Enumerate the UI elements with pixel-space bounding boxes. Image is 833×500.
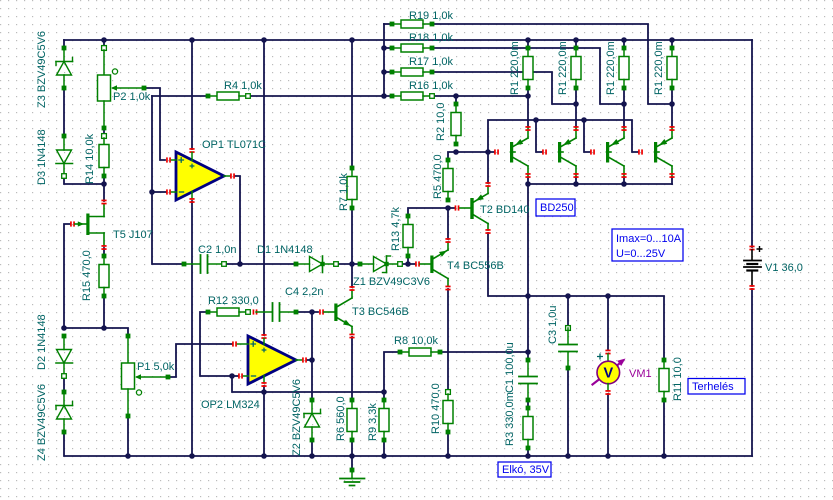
- wire Z1 to T4 base junction: [400, 263, 415, 265]
- resistor R7 1,0k: [350, 166, 355, 171]
- junction at 192,456: [189, 453, 195, 459]
- junction at 456,152: [453, 149, 459, 155]
- svg-text:R13 4,7k: R13 4,7k: [390, 206, 402, 251]
- battery V1 36,0: [749, 246, 754, 251]
- op-amp OP1 TL071C: [176, 152, 224, 200]
- junction at 584,120: [581, 117, 587, 123]
- junction at 384,96: [381, 93, 387, 99]
- transistor T3 BC546B: [319, 309, 324, 314]
- OP1 input - lead: [166, 189, 171, 194]
- wire T3 collector to row junction: [351, 264, 353, 287]
- svg-text:T4 BC556B: T4 BC556B: [447, 260, 504, 272]
- wire D1 right to junction and Z1: [336, 263, 360, 265]
- wire collector bus y=184: [528, 183, 672, 185]
- svg-text:P2 1,0k: P2 1,0k: [113, 91, 151, 103]
- junction at 672,40: [669, 37, 675, 43]
- junction at 128,456: [125, 453, 131, 459]
- junction at 264,392: [261, 389, 267, 395]
- wire R18 right y=48 to x=600: [432, 48, 624, 104]
- svg-text:V1 36,0: V1 36,0: [765, 262, 803, 274]
- wire R6 bottom to bus: [351, 440, 353, 456]
- power transistor Q2 BD250: [542, 149, 547, 154]
- wire R2 bottom junction to base bus y=152: [448, 152, 494, 160]
- OP1 V+ stub: [189, 148, 194, 153]
- svg-text:R19 1,0k: R19 1,0k: [409, 10, 454, 22]
- wire Q1..Q4 collector pins to bus: [527, 177, 529, 184]
- svg-text:R10 470,0: R10 470,0: [430, 383, 442, 434]
- svg-text:R8 10,0k: R8 10,0k: [394, 335, 439, 347]
- wire T2 emitter to base bus junction: [487, 152, 489, 183]
- wire OP1 output down to C2/D1 row: [235, 176, 240, 264]
- P1 wiper arm: [137, 376, 168, 378]
- wire OP1- junction to pin: [152, 191, 166, 193]
- wire R1#1 bottom to Q1 emitter: [527, 88, 529, 127]
- annotation box Terheles: [688, 379, 745, 395]
- wire C3 bottom to ground bus: [567, 368, 569, 456]
- wire P2 top stub: [103, 40, 105, 48]
- power transistor Q3 BD250: [590, 149, 595, 154]
- junction at 672,104: [669, 101, 675, 107]
- junction at 384,456: [381, 453, 387, 459]
- wire x=152 down to OP1- and C2: [152, 96, 184, 264]
- OP2 V- stub: [263, 376, 265, 384]
- junction at 352,456: [349, 453, 355, 459]
- resistor R1 220,0m #4: [670, 46, 675, 51]
- potentiometer P1 5,0k: [126, 334, 131, 339]
- OP2 input + lead: [232, 341, 237, 346]
- junction at 352,40: [349, 37, 355, 43]
- junction at 384,48: [381, 45, 387, 51]
- wire R4 net from x=152 corner: [152, 95, 208, 97]
- wire D3 bottom elbow to R14 junction: [64, 176, 104, 184]
- svg-text:R1 220,0m: R1 220,0m: [557, 41, 569, 95]
- wire P2 wiper to OP1+ vertical x=160: [144, 88, 165, 160]
- wire R3 bottom to bus: [527, 448, 529, 456]
- wire T4 emitter top from R5/T2 junction: [447, 208, 449, 239]
- wire VM1 top from bus y=296: [607, 296, 609, 350]
- wire R8 right to C1 junction: [440, 351, 528, 353]
- power transistor Q4 BD250: [638, 149, 643, 154]
- svg-text:Elkó, 35V: Elkó, 35V: [502, 464, 550, 476]
- OP2 V+ stub: [261, 334, 266, 339]
- svg-text:R9 3,3k: R9 3,3k: [367, 403, 379, 441]
- zener Z2 BZV49C5V6: [310, 398, 315, 403]
- junction at 568,296: [565, 293, 571, 299]
- wire OP1 V- down to bottom bus: [191, 201, 193, 456]
- wire R7 bottom to C2/D1 row junction: [351, 208, 353, 264]
- wire VM1 bottom to ground bus: [607, 394, 609, 456]
- svg-text:Terhelés: Terhelés: [692, 381, 734, 393]
- wire OP2 V+ rail x=264 from top bus: [263, 40, 265, 335]
- transistor T4 BC556B: [415, 261, 420, 266]
- wire OP2+ net from P1 wiper: [168, 344, 232, 377]
- svg-text:D3 1N4148: D3 1N4148: [36, 129, 48, 185]
- wire R9 bottom to bus: [383, 440, 385, 456]
- junction at 448,456: [445, 453, 451, 459]
- wire ground stub below bus: [351, 456, 353, 470]
- wire R16..R19 left bus x=384: [384, 23, 392, 25]
- wire C1 bottom to R3 top: [527, 400, 529, 408]
- junction at 664,456: [661, 453, 667, 459]
- wire R8 left elbow to R9: [384, 352, 400, 400]
- resistor R8 10,0k: [398, 350, 403, 355]
- junction at 384,72: [381, 69, 387, 75]
- transistor T2 BD140: [455, 205, 460, 210]
- wire P1 bottom to bus: [127, 416, 129, 456]
- junction at 104,184: [101, 181, 107, 187]
- wire output node x=528 down: [527, 184, 529, 296]
- wire R1 top stubs to +V bus: [527, 40, 529, 48]
- junction at 624,184: [621, 181, 627, 187]
- wire Q3 base drop: [584, 120, 590, 152]
- wire R1#3 bottom to Q3 emitter: [623, 88, 625, 127]
- wire V1 right rail bottom: [751, 289, 753, 456]
- svg-text:C2 1,0n: C2 1,0n: [198, 244, 237, 256]
- wire R15 bottom to junction row y=328: [103, 296, 105, 328]
- wire P2 bottom to R14 top: [103, 128, 105, 136]
- resistor R2 10,0: [454, 102, 459, 107]
- resistor R1 220,0m #2: [574, 46, 579, 51]
- transistor T5 J107 JFET: [70, 221, 75, 226]
- svg-text:C3 1,0u: C3 1,0u: [547, 305, 559, 344]
- svg-text:R5 470,0: R5 470,0: [432, 154, 444, 199]
- resistors R19 R18 R17 R16 1,0k: [390, 22, 395, 27]
- annotation box Imax/U: [612, 229, 683, 261]
- capacitor C2 1,0n: [182, 262, 187, 267]
- resistor R11 10,0: [662, 358, 667, 363]
- wire T3 emitter down to R6: [351, 337, 353, 400]
- P2 wiper arm: [113, 87, 144, 89]
- wire base feed bus y=120: [488, 120, 638, 152]
- junction at 488,152: [485, 149, 491, 155]
- capacitor C1 100,0u: [526, 358, 531, 363]
- OP1 V- stub: [191, 192, 193, 200]
- svg-text:C1 100,0u: C1 100,0u: [504, 342, 516, 393]
- wire Z2 top from OP2 out junction: [311, 360, 313, 400]
- wire top +V bus y=40: [64, 39, 752, 41]
- wire C3 top from bus y=296: [567, 296, 569, 328]
- resistor R1 220,0m #3: [622, 46, 627, 51]
- wire C2 right to D1 left: [224, 263, 296, 265]
- svg-text:VM1: VM1: [629, 368, 652, 380]
- junction at 528,352: [525, 349, 531, 355]
- resistor R14 10,0k: [102, 134, 107, 139]
- svg-text:R1 220,0m: R1 220,0m: [605, 41, 617, 95]
- wire D2 to Z4: [63, 376, 65, 392]
- wire R11 bottom to bus: [663, 400, 665, 456]
- resistor R4 1,0k: [206, 94, 211, 99]
- wire R19 right y=24 to x=648: [432, 24, 672, 104]
- wire OP2- pin lead: [232, 375, 238, 377]
- svg-text:R3 330,0m: R3 330,0m: [504, 392, 516, 446]
- capacitor C4 2,2n: [253, 309, 258, 314]
- wire C1 top stub: [527, 352, 529, 360]
- wire R16 right y=96 to Q1 emitter node: [432, 95, 528, 97]
- junction at 312,456: [309, 453, 315, 459]
- OP2 input - lead: [238, 373, 243, 378]
- junction at 352,264: [349, 261, 355, 267]
- svg-text:R4 1,0k: R4 1,0k: [224, 80, 262, 92]
- svg-text:U=0...25V: U=0...25V: [616, 248, 666, 260]
- svg-text:OP2 LM324: OP2 LM324: [201, 399, 260, 411]
- zener Z1 BZV49C3V6: [358, 262, 363, 267]
- svg-text:R11 10,0: R11 10,0: [672, 357, 684, 401]
- junction at 528,40: [525, 37, 531, 43]
- junction at 528,296: [525, 293, 531, 299]
- potentiometer P2 1,0k: [102, 46, 107, 51]
- junction at 528,184: [525, 181, 531, 187]
- diode D1 1N4148: [294, 262, 299, 267]
- wire Z4 bottom to ground bus corner: [64, 432, 752, 456]
- wire left rail Z3/D3 column top: [63, 40, 65, 48]
- svg-text:R17 1,0k: R17 1,0k: [409, 56, 454, 68]
- resistor R1 220,0m #1: [526, 46, 531, 51]
- svg-text:Z4 BZV49C5V6: Z4 BZV49C5V6: [36, 384, 48, 461]
- svg-text:Imax=0...10A: Imax=0...10A: [616, 233, 682, 245]
- ground symbol: [350, 468, 355, 473]
- junction at 104,40: [101, 37, 107, 43]
- junction at 240,264: [237, 261, 243, 267]
- wire OP2 feedback row y=392: [232, 376, 384, 392]
- OP1 output lead: [224, 175, 230, 177]
- svg-text:V: V: [603, 366, 613, 382]
- wire R13 top elbow to R5/T2 junction: [408, 208, 448, 216]
- zener Z3 BZV49C5V6: [62, 46, 67, 51]
- junction at 624,104: [621, 101, 627, 107]
- wire R1#2 bottom to Q2 emitter: [575, 88, 577, 127]
- junction at 264,456: [261, 453, 267, 459]
- wire OP2 V- stub to feedback row: [263, 386, 265, 392]
- svg-text:R6 560,0: R6 560,0: [335, 396, 347, 441]
- junction at 528,456: [525, 453, 531, 459]
- svg-text:Z1 BZV49C3V6: Z1 BZV49C3V6: [353, 276, 430, 288]
- wire OP2 V- junction down to bus: [263, 392, 265, 456]
- wire R13 bottom to T4 base junction: [407, 256, 409, 264]
- op-amp OP2 LM324: [248, 336, 296, 384]
- junction at 576,104: [573, 101, 579, 107]
- wire V1 right rail top: [751, 40, 753, 247]
- junction at 384,392: [381, 389, 387, 395]
- wire x=352 from top bus to R7: [351, 40, 353, 168]
- resistor R15 470,0: [102, 254, 107, 259]
- wire R1#4 bottom to Q4 emitter: [671, 88, 673, 127]
- junction at 568,456: [565, 453, 571, 459]
- wire R12 left elbow down to OP2- row: [200, 312, 232, 376]
- wire T5 source to R15: [103, 248, 105, 256]
- svg-text:R12 330,0: R12 330,0: [208, 295, 259, 307]
- diode D2 1N4148: [62, 334, 67, 339]
- wire R2 top stub: [455, 96, 457, 104]
- wire OP2 output to junction: [307, 359, 312, 361]
- resistor R5 470,0: [446, 158, 451, 163]
- OP2 output lead: [296, 359, 302, 361]
- junction at 64,328: [61, 325, 67, 331]
- junction at 448,208: [445, 205, 451, 211]
- capacitor C3 1,0u: [566, 326, 571, 331]
- annotation box BD250: [536, 199, 575, 216]
- zener Z4 BZV49C5V6: [62, 390, 67, 395]
- wire Z3 to D3: [63, 88, 65, 136]
- resistor R6 560,0: [350, 398, 355, 403]
- svg-text:R18 1,0k: R18 1,0k: [409, 32, 454, 44]
- junction at 576,184: [573, 181, 579, 187]
- junction at 312,312: [309, 309, 315, 315]
- svg-text:R1 220,0m: R1 220,0m: [653, 41, 665, 95]
- wire row y=328 D2/R15/P1: [64, 328, 128, 336]
- svg-text:R14 10,0k: R14 10,0k: [84, 133, 96, 184]
- wire T5 gate elbow down left column: [64, 224, 70, 328]
- wire T4 collector down to R10: [447, 289, 449, 392]
- svg-text:T5 J107: T5 J107: [113, 229, 153, 241]
- wire T3 base from C4/OP2out node: [296, 311, 318, 313]
- svg-text:R2 10,0: R2 10,0: [435, 102, 447, 141]
- resistor R13 4,7k: [406, 214, 411, 219]
- OP2 +/- symbols: [250, 341, 256, 347]
- wire T2 base to R5 junction: [448, 207, 454, 209]
- resistor R9 3,3k: [382, 398, 387, 403]
- voltmeter VM1: [605, 350, 610, 355]
- svg-text:P1 5,0k: P1 5,0k: [137, 361, 175, 373]
- junction at 192,40: [189, 37, 195, 43]
- junction at 624,40: [621, 37, 627, 43]
- resistor R12 330,0: [206, 310, 211, 315]
- OP1 +/- symbols: [178, 157, 184, 163]
- annotation box Elko: [498, 462, 551, 477]
- svg-text:R15 470,0: R15 470,0: [81, 250, 93, 301]
- svg-text:D2 1N4148: D2 1N4148: [36, 314, 48, 370]
- wire OP1 V+ from bus: [191, 40, 193, 149]
- wire junction to T5 drain pin: [103, 184, 105, 201]
- resistor R10 470,0: [446, 390, 451, 395]
- wire OP2out vertical x=312: [311, 312, 313, 360]
- wire T2 collector down to output bus y=296: [488, 233, 528, 296]
- junction at 264,40: [261, 37, 267, 43]
- svg-text:T2 BD140: T2 BD140: [480, 204, 530, 216]
- junction at 104,328: [101, 325, 107, 331]
- junction at 312,360: [309, 357, 315, 363]
- wire Q2 base drop: [536, 120, 542, 152]
- resistor R3 330,0m: [526, 406, 531, 411]
- svg-text:Z3 BZV49C5V6: Z3 BZV49C5V6: [36, 31, 48, 108]
- svg-text:R7 1,0k: R7 1,0k: [338, 173, 350, 211]
- OP1 input + lead: [166, 157, 171, 162]
- svg-text:Z2 BZV49C5V6: Z2 BZV49C5V6: [291, 379, 303, 456]
- svg-text:OP1 TL071C: OP1 TL071C: [202, 139, 266, 151]
- wire R10 bottom to bus: [447, 432, 449, 456]
- junction at 576,40: [573, 37, 579, 43]
- svg-text:R1 220,0m: R1 220,0m: [509, 41, 521, 95]
- wire output bus y=296 to R11 corner: [528, 296, 664, 360]
- junction at 608,296: [605, 293, 611, 299]
- wire R14 bottom to junction: [103, 176, 105, 184]
- wire R4 row y=96 to R16 bus x=384: [248, 95, 392, 97]
- junction at 232,376: [229, 373, 235, 379]
- junction at 408,264: [405, 261, 411, 267]
- svg-text:D1 1N4148: D1 1N4148: [257, 244, 313, 256]
- power transistor Q1 BD250: [494, 149, 499, 154]
- diode D3 1N4148: [62, 134, 67, 139]
- svg-text:BD250: BD250: [540, 202, 574, 214]
- junction at 456,96: [453, 93, 459, 99]
- junction at 528,96: [525, 93, 531, 99]
- wire Z2 bottom to bus: [311, 440, 313, 456]
- svg-text:T3 BC546B: T3 BC546B: [352, 306, 409, 318]
- wire R17 right y=72 to x=552: [432, 72, 576, 104]
- svg-text:C4 2,2n: C4 2,2n: [285, 286, 324, 298]
- junction at 152,192: [149, 189, 155, 195]
- svg-text:R16 1,0k: R16 1,0k: [409, 80, 454, 92]
- junction at 608,456: [605, 453, 611, 459]
- junction at 536,120: [533, 117, 539, 123]
